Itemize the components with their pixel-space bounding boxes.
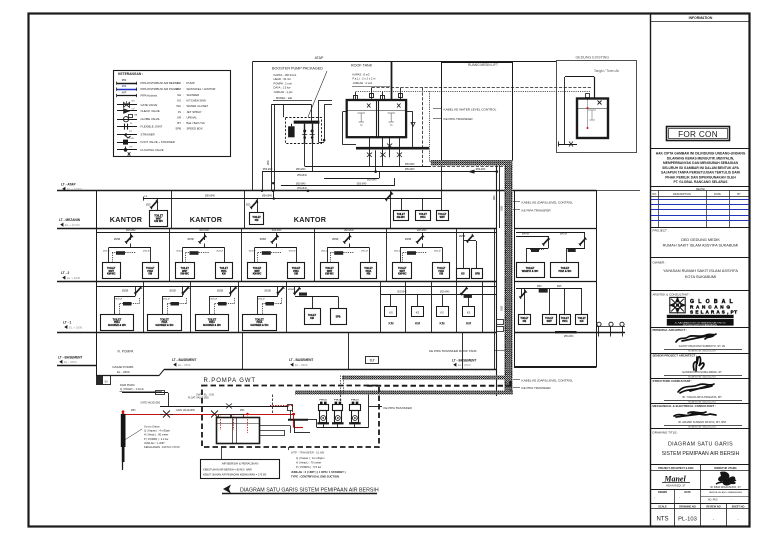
LT1 right toilet box R3 [564,288,566,314]
svg-text:KS: KS [440,310,444,314]
svg-text:IR. AZHARI SUSENO WIJAYA, MT,: IR. AZHARI SUSENO WIJAYA, MT, IPM [678,420,726,424]
svg-text:DASAR POMPA: DASAR POMPA [113,365,134,369]
existing tank [577,99,608,139]
svg-text:DATE: DATE [714,192,721,196]
svg-text:DILARANG KERAS MENGUTIP, MENYA: DILARANG KERAS MENGUTIP, MENYALIN, [667,156,734,160]
roof tank float valves [358,113,366,125]
svg-text:POMPA : 2 unit: POMPA : 2 unit [274,81,292,85]
svg-text:Ø50: Ø50 [537,286,542,288]
svg-text:SU: SU [105,381,109,383]
svg-text:Ø25-Ø: Ø25-Ø [249,250,256,252]
svg-text:KM: KM [389,322,394,326]
svg-text:KANTOR: KANTOR [294,215,327,224]
LT1 toilet unit bay 5 [294,287,296,295]
WTP transfer spec text [288,447,290,450]
suction feed pipe [160,406,289,408]
svg-text:KEBUT. BAHAN AIR PEMADAM KEBAK: KEBUT. BAHAN AIR PEMADAM KEBAKARAN = 170… [203,473,267,476]
svg-text:BY: BY [737,192,741,196]
svg-text:LT - MEZANIN: LT - MEZANIN [59,218,81,222]
svg-text:SHOWER & WC: SHOWER & WC [155,324,173,327]
svg-text:DRAWING NO: DRAWING NO [679,505,696,508]
svg-text:-: - [654,496,655,500]
drawing caption [223,485,231,494]
basement row columns [242,333,244,370]
svg-text:EL - 3500: EL - 3500 [458,363,471,367]
svg-text:GB: GB [134,115,138,117]
valve on red main 2 [211,411,218,418]
LT1 right section pipe [516,288,582,290]
svg-text:HEAD : 40 mtr: HEAD : 40 mtr [274,77,291,81]
svg-text:KE PIPA TRANSFER: KE PIPA TRANSFER [444,117,474,121]
legend floating valve [117,149,137,151]
revision row line 5 [651,220,750,222]
svg-text:LT - BASEMENT: LT - BASEMENT [58,355,82,359]
svg-text:CHECK VALVE: CHECK VALVE [141,109,160,113]
deep well red main [123,414,294,416]
svg-text:Ø40-Ø: Ø40-Ø [560,233,567,235]
svg-text:PIPA DISTRIBUSI AIR BERSIH: PIPA DISTRIBUSI AIR BERSIH [141,81,180,85]
svg-text:ROOF TANK: ROOF TANK [351,63,373,67]
svg-text:Ø50-Ø40: Ø50-Ø40 [296,169,306,171]
svg-text:KM: KM [148,273,152,276]
svg-text:Ø50: Ø50 [131,410,136,412]
svg-text:STRUCTURE CONSULTANT :: STRUCTURE CONSULTANT : [653,379,693,383]
svg-text:WASTAFEL / JANITOR: WASTAFEL / JANITOR [187,87,216,91]
shaft band top connector [431,160,513,166]
svg-text:SH: SH [177,93,181,97]
svg-text:WNT: WNT [440,217,446,219]
LT1 toilet unit bay 2 [182,287,184,297]
svg-text:Ø25: Ø25 [122,85,127,88]
svg-text:JUMLAH : 1 pkt: JUMLAH : 1 pkt [274,90,293,94]
svg-text:SCALE: SCALE [658,505,667,508]
svg-text:Ø25-Ø: Ø25-Ø [163,299,170,301]
pipe run y171.5 [262,171,497,173]
svg-text:NO. PKG: NO. PKG [708,499,718,501]
LT1 toilet unit bay 4 [277,287,279,297]
svg-text:TLT: TLT [370,359,375,363]
svg-text:LT - BASEMENT: LT - BASEMENT [452,358,476,362]
svg-text:STRAINER: STRAINER [141,132,155,136]
legend strainer [117,134,137,136]
svg-text:FLOAT VALVE Ø50: FLOAT VALVE Ø50 [188,396,209,399]
svg-text:KM-WC: KM-WC [398,273,407,276]
svg-text:FOR CON: FOR CON [678,130,718,139]
svg-text:Ø25: Ø25 [246,204,251,206]
LT1 kitchen sink unit 2 [417,294,419,306]
svg-text:GATE VALVE Ø50: GATE VALVE Ø50 [176,409,195,412]
svg-text:PROJECT ARCHITECT & ENG: PROJECT ARCHITECT & ENG [658,467,694,470]
floor line LT-1 [57,332,497,334]
svg-text:Ø50: Ø50 [500,206,504,211]
svg-text:Ø25Ø: Ø25Ø [288,289,294,291]
svg-text:DARI PDAM: DARI PDAM [120,383,134,387]
LT1 right toilet box R4 [581,288,583,314]
svg-text:KS: KS [177,99,181,103]
pipe run y178 [324,178,379,180]
svg-text:GLOBE VALVE: GLOBE VALVE [141,117,160,121]
existing tank fill pipe [594,77,596,99]
revision row line 1 [651,199,750,201]
svg-text:FLEXIBLE JOINT: FLEXIBLE JOINT [141,125,163,129]
lift shaft section box [515,191,597,367]
svg-text:TOILET: TOILET [308,315,317,317]
svg-text:R. POMPA: R. POMPA [118,350,135,354]
hose bib 2 [610,326,612,336]
svg-text:Ø50-Ø40: Ø50-Ø40 [476,169,486,171]
supply main riser [496,166,498,397]
svg-text:DED GEDUNG MEDIK: DED GEDUNG MEDIK [681,238,720,242]
svg-text:KM-WC: KM-WC [107,273,116,276]
svg-text:JS: JS [178,110,181,114]
booster leader line [308,71,327,117]
booster right riser pipes [318,100,320,142]
svg-text:SHOWER & WC: SHOWER & WC [250,324,268,327]
svg-text:WM: WM [176,87,182,91]
svg-text:Ø25-Ø40: Ø25-Ø40 [126,230,136,232]
LT2 toilet unit bay 5 [422,233,424,240]
svg-text:REVIEW NO: REVIEW NO [706,505,720,508]
water demand note box [221,447,223,459]
svg-text:DESCRIPTION: DESCRIPTION [673,192,691,196]
LT1 kitchen sink unit 1 [390,294,392,306]
LT2 row columns [169,228,171,282]
LT1 toilet unit bay 3 [230,287,232,297]
svg-text:KM-WC: KM-WC [253,273,262,276]
booster discharge pipes [304,144,306,166]
svg-text:PANITIA LELANG / MANAJEMEN: PANITIA LELANG / MANAJEMEN [709,491,742,494]
svg-text:URINAL: URINAL [187,115,198,119]
water level control cable run [372,87,591,89]
svg-text:P.a.L.t : 2 x 2 x 2 m: P.a.L.t : 2 x 2 x 2 m [353,77,377,81]
red dotted branch 2 [220,414,222,430]
pump pit floor [96,366,98,376]
title block frame [650,14,652,527]
svg-text:PIPA DISTRIBUSI AIR PANAS: PIPA DISTRIBUSI AIR PANAS [141,87,179,91]
svg-text:EL + 11700: EL + 11700 [65,223,80,227]
svg-text:IR. YOHAN ARYA PRANATA, MT: IR. YOHAN ARYA PRANATA, MT [682,395,722,399]
booster pressure tank [288,126,295,137]
svg-text:TELP (0274) 555999 YOGYAKARTA: TELP (0274) 555999 YOGYAKARTA 55281 [683,323,718,326]
svg-text:Ø25-Ø40: Ø25-Ø40 [344,230,354,232]
svg-text:Ø25-Ø: Ø25-Ø [394,250,401,252]
svg-text:YAYASAN RUMAH SAKIT ISLAM ASSY: YAYASAN RUMAH SAKIT ISLAM ASSYIFA [663,268,738,273]
svg-text:LT - ATAP: LT - ATAP [61,182,76,186]
svg-text:Ø50-Ø40: Ø50-Ø40 [263,169,273,171]
svg-text:DRAWN: DRAWN [658,491,667,494]
svg-text:Ø25: Ø25 [146,204,151,206]
svg-text:KE PIPA TRANSFER: KE PIPA TRANSFER [384,406,413,410]
svg-text:Ø50-Ø40: Ø50-Ø40 [367,180,377,182]
svg-text:MEMPERBANYAK DAN MENGUBAH SEBA: MEMPERBANYAK DAN MENGUBAH SEBAGIAN [663,161,739,165]
legend flexible joint [117,126,137,128]
annotation kabel water level control [433,108,442,110]
svg-text:CV: CV [132,108,136,110]
svg-text:RUMAH SAKIT ISLAM ASSYIFA SUKA: RUMAH SAKIT ISLAM ASSYIFA SUKABUMI [663,244,739,248]
red dotted branch 1 [247,414,249,433]
svg-text:PIHAK PEMILIK DAN DIPERGUNAKAN: PIHAK PEMILIK DAN DIPERGUNAKAN OLEH [665,175,736,179]
svg-text:WNT: WNT [547,321,553,323]
svg-text:Ø25-Ø: Ø25-Ø [211,299,218,301]
well leader line [125,429,143,440]
svg-text:AIR BERSIH & PERACIKAN: AIR BERSIH & PERACIKAN [222,461,259,465]
svg-text:KOTA SUKABUMI: KOTA SUKABUMI [685,274,717,279]
revision row line 3 [651,209,750,211]
riser junction boxes [497,320,504,325]
transfer band upper [342,376,509,380]
svg-text:AIDAN RIZQI, ST: AIDAN RIZQI, ST [666,484,686,487]
svg-text:Sumur Dalam: Sumur Dalam [144,425,160,429]
LT1 right toilet box R1 [524,288,526,314]
svg-text:Ø25-Ø: Ø25-Ø [258,299,265,301]
svg-text:R.POMPA GWT: R.POMPA GWT [204,378,256,384]
svg-text:KM WC: KM WC [154,220,163,223]
floor line LT-ATAP [57,190,597,192]
roof tank body [347,100,406,137]
svg-text:PRIA: PRIA [562,320,568,323]
svg-text:HANINDYA KUSUMA ARDHI, ST: HANINDYA KUSUMA ARDHI, ST [682,370,722,374]
svg-text:SPEED BOX: SPEED BOX [187,127,203,131]
roof tank side pipe left [343,111,347,113]
svg-text:KM: KM [222,273,226,276]
LT2 distribution pipe [96,232,497,234]
transfer thick dashed pipe [367,385,511,387]
svg-text:KAPAS : 8 m3: KAPAS : 8 m3 [353,72,370,76]
LT1 kitchen sink unit 4 [468,294,470,306]
svg-text:LT - 1: LT - 1 [63,321,71,325]
secondary riser pipe [499,166,501,229]
svg-text:Ø50-Ø40: Ø50-Ø40 [297,175,307,177]
annotation level control basement [513,379,520,381]
svg-text:Ø25-Ø: Ø25-Ø [217,250,224,252]
water level sensor [586,94,590,98]
discharge header [317,427,369,429]
svg-text:Ø25Ø: Ø25Ø [260,239,266,241]
svg-text:Ø25-Ø: Ø25-Ø [289,250,296,252]
svg-text:DIAGRAM SATU GARIS: DIAGRAM SATU GARIS [668,442,733,448]
svg-text:KM: KM [294,273,298,276]
LT2 toilet unit bay 1 [130,233,132,240]
roof tank side pipe right [406,111,413,113]
outlet valves under platform [369,148,371,166]
svg-text:KM-WC: KM-WC [325,273,334,276]
legend check valve [117,110,137,112]
svg-text:GATOT PRAKOSO SUBROTO, ST, IAI: GATOT PRAKOSO SUBROTO, ST, IAI [679,344,726,348]
suction header [288,419,308,421]
LT2 KS unit bay 6 [463,233,465,269]
svg-text:EL + 4600: EL + 4600 [67,276,81,280]
svg-text:JUMLAH : 2 ( UNIT ) ( 1 OP: JUMLAH : 2 ( UNIT ) ( 1 OPS / 1 STANDBY … [291,470,346,474]
svg-text:MODEL : alfa: MODEL : alfa [276,96,293,100]
valve on red main 1 [163,411,170,418]
svg-text:KE PIPA TRANSFER ROOF TANK: KE PIPA TRANSFER ROOF TANK [429,349,478,353]
FOR CON stamp box [667,127,730,141]
svg-text:INFORMATION: INFORMATION [689,16,713,20]
svg-text:KS: KS [416,310,420,314]
svg-text:Ø25-Ø40: Ø25-Ø40 [397,291,407,293]
svg-text:KM: KM [439,273,443,276]
svg-text:Q ( PDAM ) : 4 lt/min: Q ( PDAM ) : 4 lt/min [120,387,144,391]
svg-text:SHOWER & WC: SHOWER & WC [108,324,126,327]
svg-text:SHOWER & WC: SHOWER & WC [203,324,221,327]
svg-text:DAYA : 1.5 kw: DAYA : 1.5 kw [274,86,291,90]
hose bib 1 [598,326,600,336]
svg-text:SHEET NO: SHEET NO [732,505,745,508]
svg-text:SELURUH ISI GAMBAR INI DALAM B: SELURUH ISI GAMBAR INI DALAM BENTUK APA [662,166,739,170]
svg-text:PROJECT :: PROJECT : [653,229,669,233]
svg-text:WC: WC [176,104,181,108]
svg-text:HAK CIPTA GAMBAR INI DILINDUNG: HAK CIPTA GAMBAR INI DILINDUNGI UNDANG-U… [656,152,746,156]
svg-text:KE PIPA TRANSFER: KE PIPA TRANSFER [522,208,552,212]
svg-text:FVS: FVS [130,138,135,140]
floor line LT-BASEMENT [57,365,96,367]
legend pipe hydrant [117,95,137,97]
roof tank outlet drops [369,137,371,148]
svg-text:Bak / Bath Tub: Bak / Bath Tub [187,121,206,125]
svg-text:Tangki / Toren Air: Tangki / Toren Air [594,69,620,73]
hose bib supply pipe [597,326,626,328]
roof tank platform [356,147,429,150]
svg-text:Ø40: Ø40 [493,195,496,200]
pipe run y185.8 [281,185,395,187]
svg-text:Q ( Kapas ) : 4 m3/jam: Q ( Kapas ) : 4 m3/jam [144,429,170,433]
svg-text:Ø40-Ø: Ø40-Ø [522,233,529,235]
basement small fixture box [366,357,379,364]
svg-text:P ( POMPA ) : 2.2 kw: P ( POMPA ) : 2.2 kw [144,437,168,441]
roof tank inlet drops [355,92,357,100]
mezz unit 3 manifold [386,193,392,200]
svg-text:Ø50-Ø40: Ø50-Ø40 [405,169,415,171]
red main drop to GWT [293,414,295,428]
svg-text:GATE VALVE Ø50: GATE VALVE Ø50 [141,401,161,404]
svg-text:Ø25Ø: Ø25Ø [405,239,411,241]
svg-text:KITCHEN SINK: KITCHEN SINK [187,99,207,103]
booster suction loop piping [272,104,312,106]
svg-text:GATE VALVE: GATE VALVE [141,103,158,107]
svg-text:PRIA: PRIA [420,216,426,219]
svg-text:KEDALAMAN : 100 M ± 170 M: KEDALAMAN : 100 M ± 170 M [144,445,179,449]
consultant emblem [669,296,687,314]
approval stamp right [718,471,736,485]
svg-text:IR. BIMA WICAKSONO, ST: IR. BIMA WICAKSONO, ST [710,486,741,489]
svg-text:Ø50-Ø40: Ø50-Ø40 [564,336,574,338]
svg-text:Ø25: Ø25 [557,286,562,288]
flow arrow on transfer pipe [468,170,475,174]
svg-text:GV: GV [132,100,136,102]
LT2 toilet unit bay 2 [204,233,206,240]
svg-text:OWNER :: OWNER : [653,260,667,264]
svg-text:Ø25Ø: Ø25Ø [217,291,223,293]
legend pipe air panas (blue) [117,89,137,91]
svg-text:PT. GLOBAL RANCANG SELARAS: PT. GLOBAL RANCANG SELARAS [674,180,729,184]
floor line LT-2 [57,281,497,283]
svg-text:FOOT VALVE + STRAINER: FOOT VALVE + STRAINER [141,140,175,144]
svg-text:SAJAPUN TANPA PERSETUJUAN TERT: SAJAPUN TANPA PERSETUJUAN TERTULIS DARI [661,171,740,175]
booster pump 1 [304,124,306,144]
svg-text:Ø50-Ø40: Ø50-Ø40 [405,164,415,166]
svg-text:PU: PU [177,81,181,85]
svg-text:MECHANICAL & ELECTRICAL CONSUL: MECHANICAL & ELECTRICAL CONSULTANT : [653,404,716,408]
svg-text:ARSITEK & CONSULTANT :: ARSITEK & CONSULTANT : [653,292,691,296]
GWT internal piping [260,425,290,427]
svg-text:DRAWING TITLE :: DRAWING TITLE : [653,431,679,435]
pipe run y166 [305,166,431,168]
svg-text:Ø25-Ø40: Ø25-Ø40 [200,230,210,232]
svg-text:EL - 3500: EL - 3500 [295,363,308,367]
svg-text:KM: KM [255,219,259,222]
svg-text:BOOSTER PUMP PACKAGED: BOOSTER PUMP PACKAGED [272,67,323,71]
svg-text:Ø50-Ø40: Ø50-Ø40 [205,195,216,198]
svg-text:PTR-01: PTR-01 [319,400,327,402]
svg-text:Ø25Ø: Ø25Ø [170,291,176,293]
transfer outlet pipe [369,406,383,408]
svg-text:EL - 3500: EL - 3500 [178,363,191,367]
GWT tank hatches [219,415,231,418]
svg-text:KE PIPA TRANSFER: KE PIPA TRANSFER [522,386,552,390]
svg-text:Ø25-Ø40: Ø25-Ø40 [417,230,427,232]
svg-text:KS: KS [389,310,393,314]
svg-text:Ø25-Ø: Ø25-Ø [361,250,368,252]
svg-text:NO ANGGOTA : 0000-1111-2222: NO ANGGOTA : 0000-1111-2222 [688,350,716,353]
riser drop to mezzanine pipe [273,191,275,199]
mezz toilet box 3a [394,211,409,221]
svg-text:EL - 2600: EL - 2600 [117,370,130,374]
svg-text:SPB: SPB [336,317,341,319]
svg-text:FLOATING VALVE: FLOATING VALVE [141,148,164,152]
svg-text:NO.: NO. [652,192,657,196]
band A drop into pump room [340,376,342,395]
svg-text:Ø25Ø: Ø25Ø [114,239,120,241]
svg-text:Ø50: Ø50 [267,160,270,165]
svg-text:LT - 2: LT - 2 [61,271,69,275]
svg-text:GEDUNG EXISTING: GEDUNG EXISTING [576,55,610,59]
svg-text:SPB: SPB [175,127,181,131]
svg-text:PTR-01: PTR-01 [334,400,342,402]
svg-text:Ø25-Ø: Ø25-Ø [116,299,123,301]
legend pipe air bersih [117,83,137,85]
svg-text:Ø50-Ø40: Ø50-Ø40 [357,183,367,185]
svg-text:Q ( Kapas ) : 11 m3/jam: Q ( Kapas ) : 11 m3/jam [296,456,325,460]
column grid main [96,191,98,367]
svg-text:WTP - TRANSFER - 01 A/B: WTP - TRANSFER - 01 A/B [291,451,324,455]
riser drop to mezzanine unit 3 [441,166,443,199]
hose bib 3 [622,326,624,336]
transfer band lower [295,391,513,395]
svg-text:NTS: NTS [657,517,669,523]
mezz toilet unit 1 [157,199,159,211]
pump room dashed wall [202,386,379,448]
svg-text:Ø25Ø: Ø25Ø [332,239,338,241]
svg-text:KM: KM [367,273,371,276]
svg-text:Ø50: Ø50 [240,410,245,412]
LT1 distribution pipe [96,286,497,288]
svg-text:SPB: SPB [475,272,480,275]
svg-text:Ø50-Ø40: Ø50-Ø40 [296,183,306,185]
booster header bar [294,121,320,124]
svg-text:S E L A R A S , PT: S E L A R A S , PT [690,310,738,315]
svg-text:JUMLAH : 2 unit: JUMLAH : 2 unit [353,81,373,85]
svg-text:KM-WC: KM-WC [397,217,406,219]
sump pit box [97,376,111,385]
svg-text:PRINCIPAL ARCHITECT :: PRINCIPAL ARCHITECT : [653,328,688,332]
svg-text:KEBUTUHAN AIR BERSIH = 80 M3: KEBUTUHAN AIR BERSIH = 80 M3 / HARI [203,468,252,472]
mezz row columns [171,191,173,228]
svg-text:KANTOR: KANTOR [190,215,223,224]
svg-text:APP: APP [122,92,127,95]
LT1 right valve cluster [521,288,523,297]
svg-text:KM: KM [466,322,471,326]
mezz toilet unit 2 [257,199,259,213]
